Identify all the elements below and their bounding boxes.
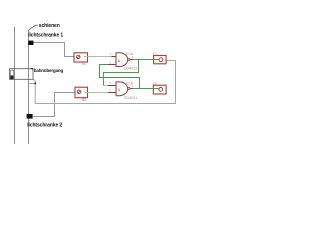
svg-text:CD4011: CD4011 xyxy=(124,96,138,100)
svg-text:bahnübergang: bahnübergang xyxy=(34,68,64,73)
svg-text:&: & xyxy=(118,88,121,92)
svg-text:lichtschranke 1: lichtschranke 1 xyxy=(28,33,63,39)
svg-text:D2: D2 xyxy=(153,81,157,85)
svg-text:1: 1 xyxy=(110,52,112,56)
svg-text:schienen: schienen xyxy=(39,23,60,29)
svg-text:S2: S2 xyxy=(82,98,86,102)
svg-text:lichtschranke 2: lichtschranke 2 xyxy=(27,122,62,128)
svg-text:&: & xyxy=(118,59,121,63)
svg-text:3: 3 xyxy=(132,55,134,59)
svg-text:5: 5 xyxy=(110,81,112,85)
svg-text:CD4011: CD4011 xyxy=(124,66,138,70)
svg-text:D1: D1 xyxy=(153,51,157,55)
svg-text:S1: S1 xyxy=(82,62,86,66)
svg-text:4: 4 xyxy=(132,84,134,88)
